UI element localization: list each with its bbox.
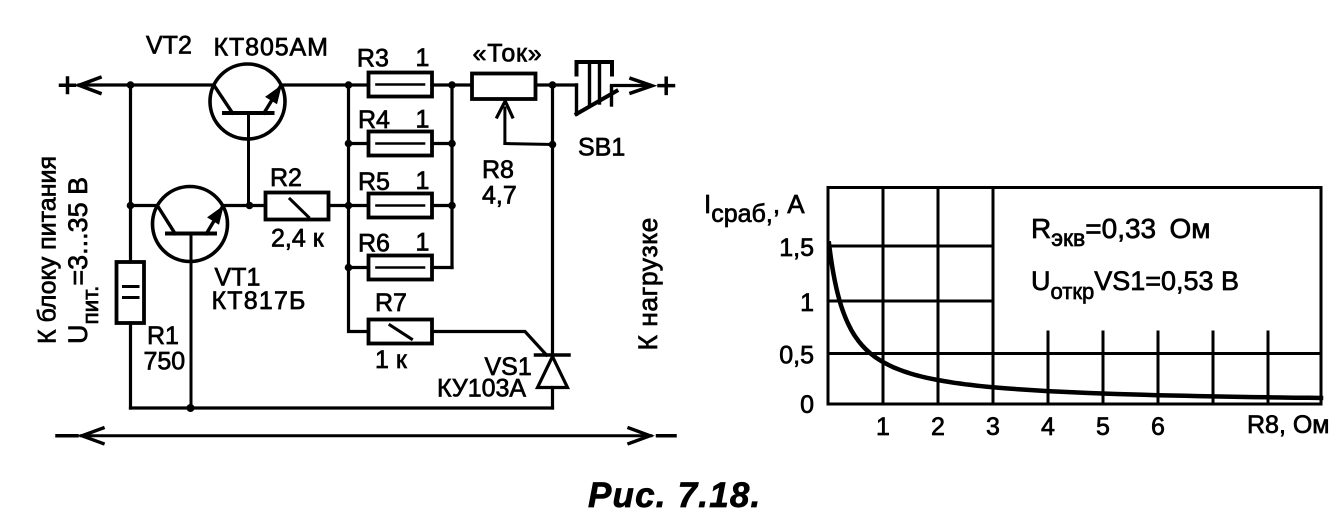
wire R6 left [349, 266, 369, 269]
resistor R1 [117, 262, 145, 323]
plus input terminal [61, 78, 75, 93]
node dot left bus R6 [345, 264, 353, 272]
node dot VT1 base bottom [187, 404, 195, 412]
svg-text:R3: R3 [357, 45, 389, 73]
svg-text:4: 4 [1041, 413, 1055, 441]
node dot left stack bus top [345, 81, 353, 89]
graph tick x=4 [1047, 332, 1050, 404]
svg-text:0: 0 [800, 391, 814, 419]
node A dot (left bus / top rail) [127, 81, 135, 89]
graph gridline x=2 [937, 188, 940, 405]
R8 wiper arrow [497, 101, 553, 145]
svg-text:R8, Ом: R8, Ом [1247, 411, 1329, 439]
wire R2 right [329, 204, 349, 207]
wire bottom node rail [131, 406, 553, 409]
svg-text:R4: R4 [358, 106, 390, 134]
transistor VT1 [153, 187, 228, 409]
node dot VT2 base [246, 202, 254, 210]
svg-text:1,5: 1,5 [779, 234, 814, 262]
graph gridline x=3 [992, 188, 995, 405]
svg-text:«Ток»: «Ток» [473, 40, 543, 68]
thyristor VS1 triangle [538, 357, 568, 388]
wire VS1 gate from R7 [432, 332, 547, 356]
wire VS1 anode down [551, 388, 554, 409]
graph tick x=7 [1212, 332, 1215, 404]
svg-text:1 к: 1 к [375, 346, 408, 374]
wire VT1 emitter to VT2 base node [223, 204, 266, 207]
svg-text:К блоку питания: К блоку питания [34, 156, 62, 344]
wire VS1 bus upper [551, 85, 554, 355]
transistor VT2 [210, 64, 285, 206]
svg-text:SB1: SB1 [578, 134, 625, 162]
node dot SB1 [549, 81, 557, 89]
resistor R7 [369, 320, 433, 344]
output arrowhead (right) [631, 79, 652, 94]
wire R6 right [432, 266, 452, 269]
svg-text:2,4 к: 2,4 к [271, 225, 325, 253]
plus output terminal [659, 78, 674, 93]
svg-text:R2: R2 [270, 164, 302, 192]
wire top rail left [79, 83, 214, 86]
node B dot (left bus / VT1 collector) [127, 202, 135, 210]
node dot right bus R5 [448, 202, 456, 210]
graph tick x=8 [1267, 332, 1270, 404]
svg-text:R6: R6 [358, 230, 390, 258]
resistor R3 [369, 73, 433, 97]
resistor R6 [369, 256, 433, 280]
svg-text:R1: R1 [147, 322, 179, 350]
svg-text:6: 6 [1151, 413, 1165, 441]
svg-text:VT2: VT2 [146, 32, 192, 60]
thyristor VS1 cathode bar [536, 353, 570, 357]
potentiometer R8 [472, 74, 536, 100]
graph gridline x=1 [882, 188, 885, 405]
resistor R2 [266, 193, 329, 220]
wire R8 to SB1 node [536, 83, 577, 86]
svg-text:4,7: 4,7 [482, 182, 517, 210]
svg-text:R5: R5 [358, 168, 390, 196]
wire right stack bus [450, 85, 453, 268]
svg-text:1: 1 [876, 413, 890, 441]
input arrowhead (left) [79, 78, 100, 94]
graph gridline y=0.5 [828, 352, 1321, 355]
svg-text:КТ805АМ: КТ805АМ [214, 34, 329, 62]
svg-text:КТ817Б: КТ817Б [212, 287, 307, 315]
graph gridline y=1.5 [828, 245, 993, 248]
svg-text:750: 750 [144, 348, 186, 376]
svg-text:КУ103А: КУ103А [437, 375, 526, 403]
svg-text:3: 3 [986, 413, 1000, 441]
wire SB1 out [612, 84, 651, 87]
resistor R5 [369, 194, 433, 218]
wire R3 to right bus [432, 83, 472, 86]
graph gridline y=1.0 [828, 300, 993, 303]
graph tick x=5 [1102, 332, 1105, 404]
resistor R4 [369, 132, 433, 156]
minus rail arrow line [57, 428, 675, 444]
graph border [828, 188, 1321, 405]
svg-text:2: 2 [931, 413, 945, 441]
svg-text:Рис. 7.18.: Рис. 7.18. [588, 476, 761, 515]
svg-text:0,5: 0,5 [779, 342, 814, 370]
graph tick x=6 [1157, 332, 1160, 404]
svg-text:5: 5 [1096, 413, 1110, 441]
push button SB1 [577, 62, 617, 114]
svg-text:К нагрузке: К нагрузке [633, 217, 663, 350]
wire R4 left [349, 142, 369, 145]
svg-text:1: 1 [416, 229, 430, 257]
node dot left bus R4 [345, 140, 353, 148]
node dot right bus top [448, 81, 456, 89]
wire left bus lower [129, 323, 132, 408]
svg-text:1: 1 [800, 289, 814, 317]
svg-text:1: 1 [416, 44, 430, 72]
svg-text:1: 1 [416, 106, 430, 134]
node dot right bus R4 [448, 140, 456, 148]
wire top rail middle [281, 83, 369, 86]
graph curve [829, 244, 1321, 399]
wire R5 left [349, 204, 369, 207]
wire VT1 collector from left bus [131, 204, 158, 207]
svg-text:R8: R8 [482, 156, 514, 184]
node dot wiper tap [549, 141, 557, 149]
wire R4 right [432, 142, 452, 145]
wire left stack bus [349, 85, 369, 332]
wire R5 right [432, 204, 452, 207]
svg-text:R7: R7 [375, 289, 407, 317]
svg-text:1: 1 [416, 167, 430, 195]
node dot left bus R5 [345, 202, 353, 210]
wire left bus upper [129, 85, 132, 262]
